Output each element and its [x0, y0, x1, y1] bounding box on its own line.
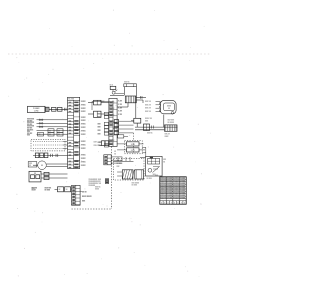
- svg-text:M: M: [41, 165, 43, 167]
- svg-text:XX XXXX: XX XXXX: [168, 122, 175, 124]
- svg-text:XXX XX: XXX XX: [145, 101, 152, 103]
- svg-text:XX XX: XX XX: [82, 191, 88, 193]
- svg-text:XXXXX: XXXXX: [167, 197, 174, 199]
- svg-text:XX: XX: [163, 161, 165, 163]
- svg-text:XXXX XX: XXXX XX: [145, 118, 153, 120]
- svg-text:X XXX: X XXX: [81, 155, 87, 157]
- svg-text:XXX: XXX: [82, 201, 86, 203]
- svg-text:XXX XXX: XXX XXX: [168, 120, 175, 122]
- svg-text:XX: XX: [59, 189, 61, 191]
- svg-text:X XXX: X XXX: [81, 108, 87, 110]
- svg-text:XX: XX: [39, 134, 41, 136]
- svg-text:XXXX: XXXX: [131, 150, 135, 152]
- svg-text:XXXX XXXX: XXXX XXXX: [82, 196, 92, 198]
- svg-text:X: X: [171, 203, 172, 205]
- svg-text:XXX XX: XXX XX: [145, 111, 152, 113]
- svg-text:X XXX: X XXX: [81, 117, 87, 119]
- svg-text:X XX: X XX: [118, 101, 122, 103]
- svg-text:XXX XX: XXX XX: [95, 187, 100, 189]
- svg-text:XXX: XXX: [155, 175, 158, 177]
- svg-text:XXX XX: XXX XX: [147, 132, 152, 134]
- svg-text:X: X: [113, 102, 114, 104]
- svg-text:XXXX: XXXX: [131, 144, 135, 146]
- svg-text:X: X: [174, 203, 175, 205]
- svg-text:X XXX: X XXX: [81, 127, 87, 129]
- svg-text:XXX XX: XXX XX: [124, 82, 129, 84]
- svg-text:X XXX: X XXX: [81, 145, 87, 147]
- svg-text:XX XXX: XX XXX: [27, 120, 32, 122]
- svg-text:XXX: XXX: [163, 159, 166, 161]
- svg-text:XXX XX: XXX XX: [145, 104, 152, 106]
- svg-text:CORD: CORD: [34, 110, 40, 112]
- svg-text:XXX: XXX: [98, 127, 101, 129]
- svg-text:XXX: XXX: [145, 120, 148, 122]
- svg-text:XX: XX: [58, 134, 60, 136]
- svg-text:XXX XXXX: XXX XXXX: [132, 182, 139, 184]
- svg-text:XXX: XXX: [98, 133, 101, 135]
- svg-text:XXX: XXX: [27, 131, 30, 133]
- svg-text:X XXX: X XXX: [81, 120, 87, 122]
- svg-text:X XXX: X XXX: [81, 111, 87, 113]
- svg-text:XX: XX: [66, 189, 68, 191]
- svg-text:XXXXX: XXXXX: [180, 197, 187, 199]
- svg-text:XX XXX: XX XXX: [68, 99, 75, 101]
- svg-text:XXX: XXX: [98, 113, 101, 115]
- svg-text:X XXX: X XXX: [81, 158, 87, 160]
- svg-text:X XXX: X XXX: [81, 148, 87, 150]
- svg-text:XXXXXXXX XXX: XXXXXXXX XXX: [89, 179, 102, 181]
- svg-text:XX: XX: [49, 134, 51, 136]
- svg-text:XXXX XX: XXXX XX: [45, 187, 53, 189]
- svg-text:XXX: XXX: [98, 123, 101, 125]
- svg-text:XX XXX: XX XXX: [45, 190, 52, 192]
- svg-text:XX: XX: [114, 151, 116, 153]
- svg-text:X XXX: X XXX: [81, 162, 87, 164]
- svg-text:XXX: XXX: [117, 166, 120, 168]
- svg-text:X XXX: X XXX: [81, 165, 87, 167]
- svg-text:XXXXXXXXXXX: XXXXXXXXXXX: [89, 181, 102, 183]
- svg-text:XXX: XXX: [27, 135, 30, 137]
- svg-text:X XXX: X XXX: [81, 124, 87, 126]
- svg-text:XXXX: XXXX: [165, 136, 169, 138]
- svg-text:POWER: POWER: [33, 108, 40, 110]
- svg-text:XX XXX: XX XXX: [27, 127, 32, 129]
- svg-text:X XX: X XX: [118, 114, 122, 116]
- svg-text:XXX XX: XXX XX: [145, 108, 152, 110]
- svg-text:XXXX: XXXX: [167, 105, 171, 107]
- svg-text:XX XXX: XX XXX: [117, 163, 122, 165]
- svg-text:XX: XX: [114, 154, 116, 156]
- svg-text:XXXXXXXXX XX: XXXXXXXXX XX: [89, 183, 102, 185]
- svg-text:X XX: X XX: [118, 111, 122, 113]
- svg-text:X XXX: X XXX: [81, 134, 87, 136]
- svg-text:XXX XX: XXX XX: [165, 133, 170, 135]
- svg-text:X: X: [177, 203, 178, 205]
- svg-text:X: X: [181, 203, 182, 205]
- svg-text:XX: XX: [168, 108, 170, 110]
- svg-text:X: X: [167, 203, 168, 205]
- svg-text:X: X: [161, 203, 162, 205]
- svg-text:X: X: [164, 203, 165, 205]
- svg-text:XX XXX: XX XXX: [27, 124, 32, 126]
- svg-text:X: X: [113, 108, 114, 110]
- svg-text:XXX: XXX: [29, 163, 32, 165]
- svg-text:XXXX: XXXX: [95, 189, 99, 191]
- svg-text:X: X: [113, 114, 114, 116]
- svg-text:X XXX: X XXX: [81, 101, 87, 103]
- svg-text:XXX: XXX: [98, 117, 101, 119]
- svg-text:XXX XX: XXX XX: [117, 160, 122, 162]
- svg-text:X: X: [113, 140, 114, 142]
- svg-text:X XXX: X XXX: [81, 141, 87, 143]
- svg-text:XXX: XXX: [98, 130, 101, 132]
- svg-text:X: X: [184, 203, 185, 205]
- svg-text:X XX: X XX: [118, 107, 122, 109]
- svg-text:XX XXX: XX XXX: [132, 185, 137, 187]
- svg-text:X XXX: X XXX: [81, 131, 87, 133]
- svg-text:X XXX: X XXX: [81, 105, 87, 107]
- svg-text:XX: XX: [29, 165, 31, 167]
- svg-text:XX XXX: XX XXX: [147, 178, 152, 180]
- svg-text:X XX: X XX: [118, 104, 122, 106]
